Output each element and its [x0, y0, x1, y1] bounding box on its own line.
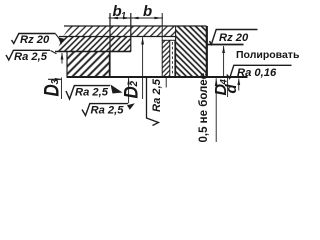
roughness sign Ra2,5 lower (shaft under cavity) — [82, 104, 128, 116]
svg-text:Ra 2,5: Ra 2,5 — [91, 105, 125, 117]
leader 0,5 ne bolee — [215, 78, 217, 142]
seal ring hatch — [162, 40, 170, 76]
bushing bottom line — [55, 51, 131, 53]
svg-text:0,5 не более: 0,5 не более — [198, 73, 210, 143]
leader arrow D2 — [142, 37, 144, 99]
gland (right part) hatch — [176, 26, 207, 77]
svg-text:2: 2 — [129, 81, 140, 88]
ring top edge — [162, 39, 175, 41]
dimension line D3 with arrow — [48, 78, 62, 80]
dimension line b1 b — [109, 17, 164, 19]
housing upper band hatch — [63, 26, 176, 37]
block right edge (bold) — [109, 52, 111, 78]
bushing band hatch — [57, 37, 132, 52]
svg-text:Полировать: Полировать — [236, 49, 300, 61]
leader arrow to bushing line — [61, 52, 64, 59]
ring right edge — [169, 40, 171, 76]
roughness sign Ra2,5 middle (bore D3) — [66, 86, 110, 99]
extension stub right of ring — [165, 77, 167, 88]
housing/bushing boundary line — [59, 36, 176, 38]
extension line D3 — [61, 78, 63, 100]
extension line b right / ring left edge — [161, 13, 163, 77]
shaft shoulder top line — [207, 44, 244, 46]
svg-text:d: d — [223, 84, 240, 94]
svg-text:Ra 2,5: Ra 2,5 — [75, 87, 109, 99]
svg-text:D: D — [119, 86, 141, 98]
block left edge — [66, 52, 68, 78]
roughness sign Rz20 right — [210, 30, 258, 45]
svg-text:D: D — [41, 84, 64, 96]
bearing block hatch — [67, 52, 110, 78]
extension line between D4 and d — [227, 77, 229, 97]
roughness sign Ra2,5 vertical (rotated) — [147, 77, 159, 126]
gap column right line — [174, 40, 176, 76]
svg-text:Rz 20: Rz 20 — [20, 34, 50, 46]
its leader arrow to shaft line — [128, 78, 130, 103]
top edge of housing — [64, 25, 207, 27]
svg-text:Ra 2,5: Ra 2,5 — [151, 78, 163, 112]
svg-text:3: 3 — [50, 79, 61, 85]
roughness sign Ra0,16 right — [227, 65, 292, 78]
roughness sign Rz20 left — [12, 34, 56, 44]
roughness sign Ra2,5 left — [6, 50, 50, 60]
hidden dashed line in gap — [171, 42, 173, 74]
shaft surface line (bold) — [67, 76, 248, 78]
its short leader arrow to shaft — [238, 79, 240, 91]
leader arrow polish — [223, 46, 225, 78]
gland left edge — [175, 26, 177, 77]
gland right edge — [206, 26, 208, 77]
svg-text:Ra 0,16: Ra 0,16 — [237, 67, 277, 79]
extension line b1/b middle — [130, 13, 132, 52]
svg-text:Rz 20: Rz 20 — [219, 32, 249, 44]
svg-text:Ra 2,5: Ra 2,5 — [14, 51, 48, 63]
svg-text:1: 1 — [121, 10, 126, 20]
svg-text:b: b — [143, 3, 152, 20]
extension line b1 left — [109, 13, 111, 52]
